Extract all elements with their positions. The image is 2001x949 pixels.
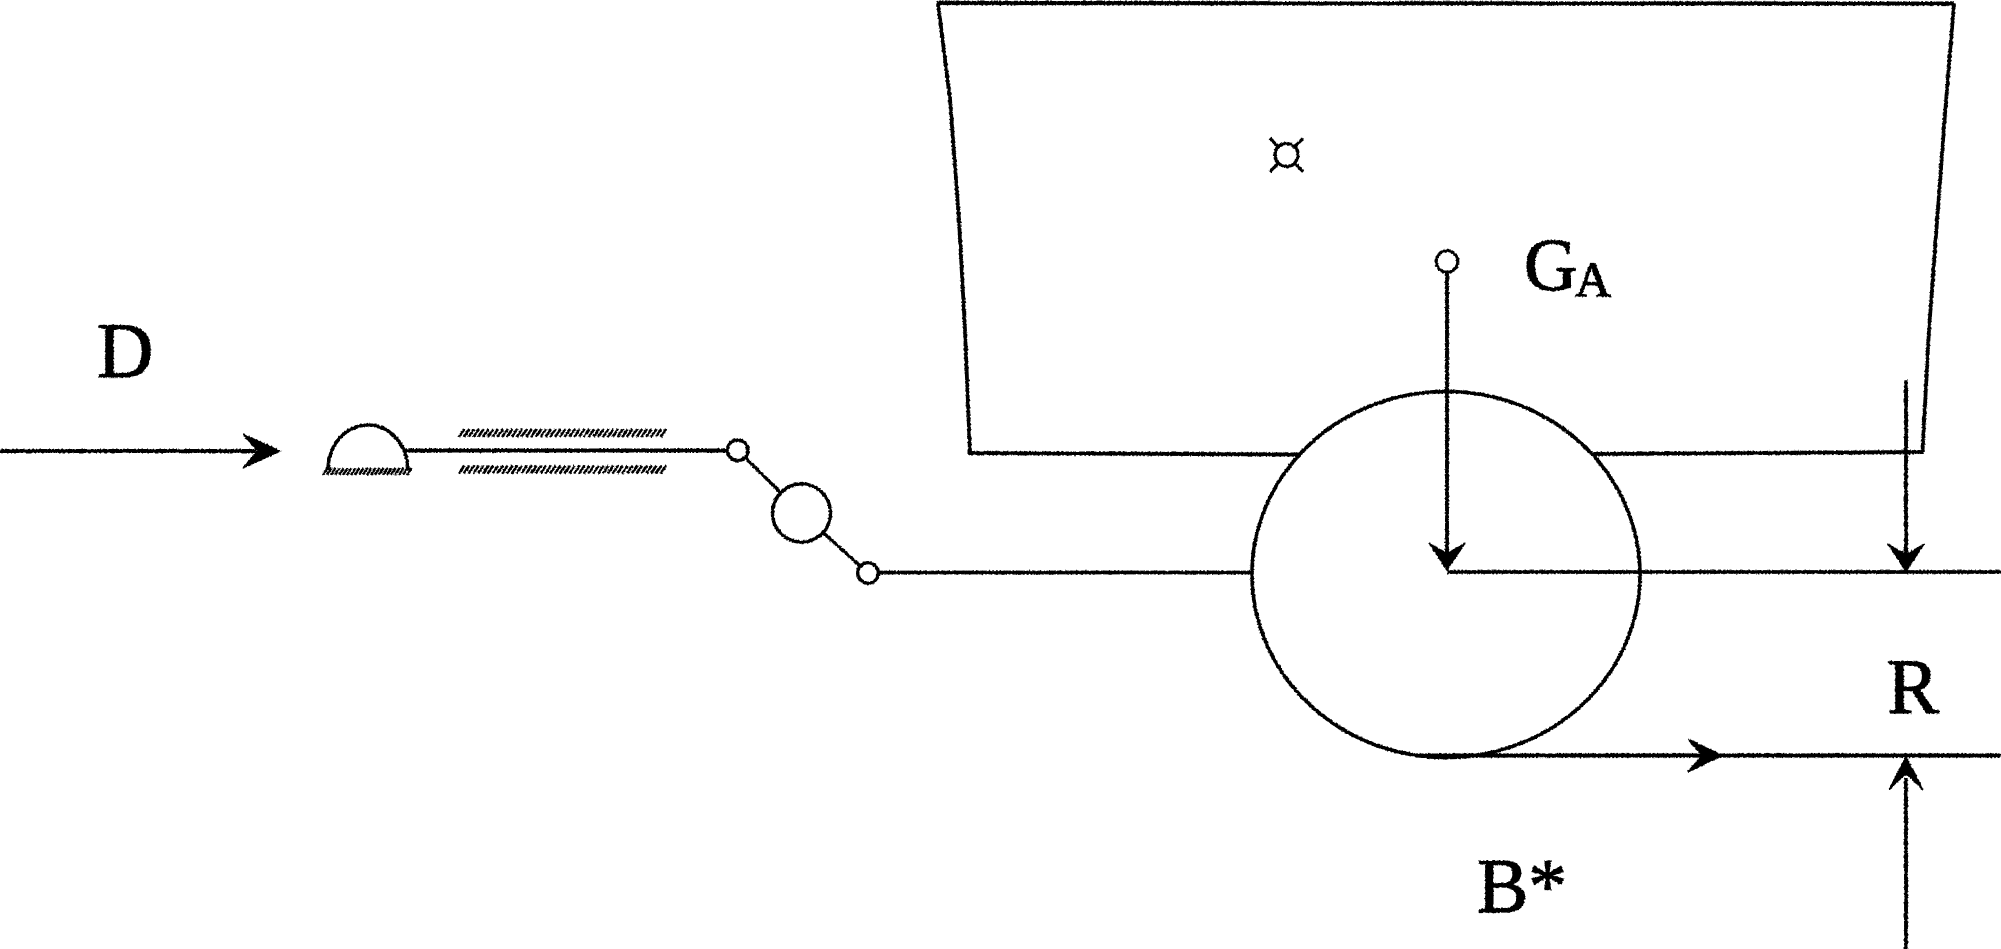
- radius R dimension line upper: [1904, 380, 1908, 560]
- force GA line: [1445, 265, 1449, 560]
- centre-of-mass symbol: [1270, 138, 1303, 171]
- drawbar lower hatched line: [459, 466, 666, 474]
- svg-text:A: A: [1575, 252, 1611, 308]
- hitch dome: [328, 425, 408, 470]
- axle line from hitch to wheel: [877, 571, 1251, 575]
- body top edge: [937, 1, 1954, 6]
- hitch dome hatched base: [323, 468, 412, 475]
- force D arrowhead: [243, 434, 280, 468]
- ground line: [1415, 753, 2001, 757]
- wheel: [1252, 392, 1640, 758]
- svg-text:R: R: [1887, 643, 1939, 730]
- force D arrow line: [0, 449, 256, 453]
- svg-text:D: D: [97, 307, 153, 394]
- svg-text:B*: B*: [1477, 843, 1567, 929]
- body right edge: [1923, 4, 1955, 453]
- force GA pivot circle: [1436, 251, 1458, 273]
- radius R down arrowhead: [1888, 544, 1924, 571]
- reaction B* up arrowhead: [1889, 757, 1923, 790]
- body bottom edge left segment: [968, 453, 1301, 455]
- hitch pin small circle upper: [727, 440, 748, 461]
- body left edge: [938, 3, 970, 453]
- ground line arrowhead: [1688, 739, 1722, 772]
- hitch pin small circle lower: [858, 563, 879, 584]
- svg-text:G: G: [1524, 225, 1577, 307]
- linkage middle circle: [773, 484, 831, 542]
- body bottom edge right segment: [1593, 452, 1924, 454]
- drawbar upper hatched line: [459, 429, 666, 437]
- force GA arrowhead: [1429, 543, 1465, 570]
- linkage bars: [738, 450, 868, 573]
- axle line from wheel centre to right edge: [1447, 570, 2001, 574]
- drawbar main line: [404, 449, 728, 453]
- reaction B* line: [1904, 778, 1908, 949]
